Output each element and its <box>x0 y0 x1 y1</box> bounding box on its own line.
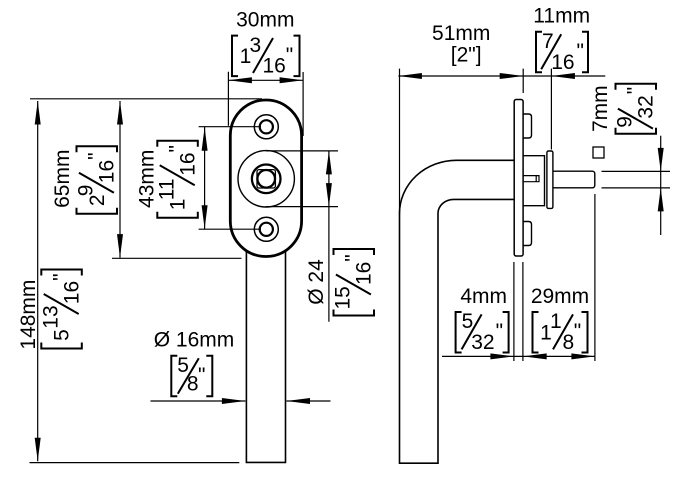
svg-text:11: 11 <box>156 178 179 200</box>
svg-text:3: 3 <box>250 34 262 57</box>
svg-text:[2"]: [2"] <box>451 44 482 67</box>
svg-text:8: 8 <box>563 331 575 354</box>
svg-text:51mm: 51mm <box>432 22 490 45</box>
svg-text:Ø 24: Ø 24 <box>305 259 328 305</box>
svg-text:": " <box>577 40 584 63</box>
svg-text:148mm: 148mm <box>17 280 40 350</box>
svg-text:11mm: 11mm <box>533 5 590 28</box>
svg-text:Ø 16mm: Ø 16mm <box>154 328 235 351</box>
svg-text:16: 16 <box>96 160 119 183</box>
svg-text:65mm: 65mm <box>51 150 74 208</box>
svg-text:16: 16 <box>551 51 574 74</box>
svg-text:1: 1 <box>550 310 562 333</box>
svg-text:": " <box>166 145 189 152</box>
svg-text:13: 13 <box>40 305 63 328</box>
svg-text:": " <box>624 87 647 94</box>
svg-text:7mm: 7mm <box>589 85 612 132</box>
svg-text:": " <box>574 320 581 343</box>
svg-text:30mm: 30mm <box>236 8 294 31</box>
svg-text:": " <box>496 320 503 343</box>
svg-text:32: 32 <box>635 95 658 118</box>
svg-text:16: 16 <box>176 152 199 175</box>
svg-text:5: 5 <box>51 329 74 341</box>
svg-text:16: 16 <box>353 262 376 285</box>
svg-text:16: 16 <box>60 281 83 304</box>
svg-text:5: 5 <box>462 310 474 333</box>
svg-text:8: 8 <box>187 372 199 395</box>
svg-text:": " <box>50 273 73 280</box>
svg-text:32: 32 <box>471 331 494 354</box>
svg-text:": " <box>198 364 205 387</box>
svg-text:16: 16 <box>263 55 286 78</box>
svg-text:": " <box>342 254 365 261</box>
svg-text:": " <box>85 152 108 159</box>
svg-text:29mm: 29mm <box>531 285 589 308</box>
svg-text:": " <box>286 44 293 67</box>
svg-text:4mm: 4mm <box>460 285 507 308</box>
svg-text:9: 9 <box>75 185 98 197</box>
svg-text:15: 15 <box>332 286 355 309</box>
